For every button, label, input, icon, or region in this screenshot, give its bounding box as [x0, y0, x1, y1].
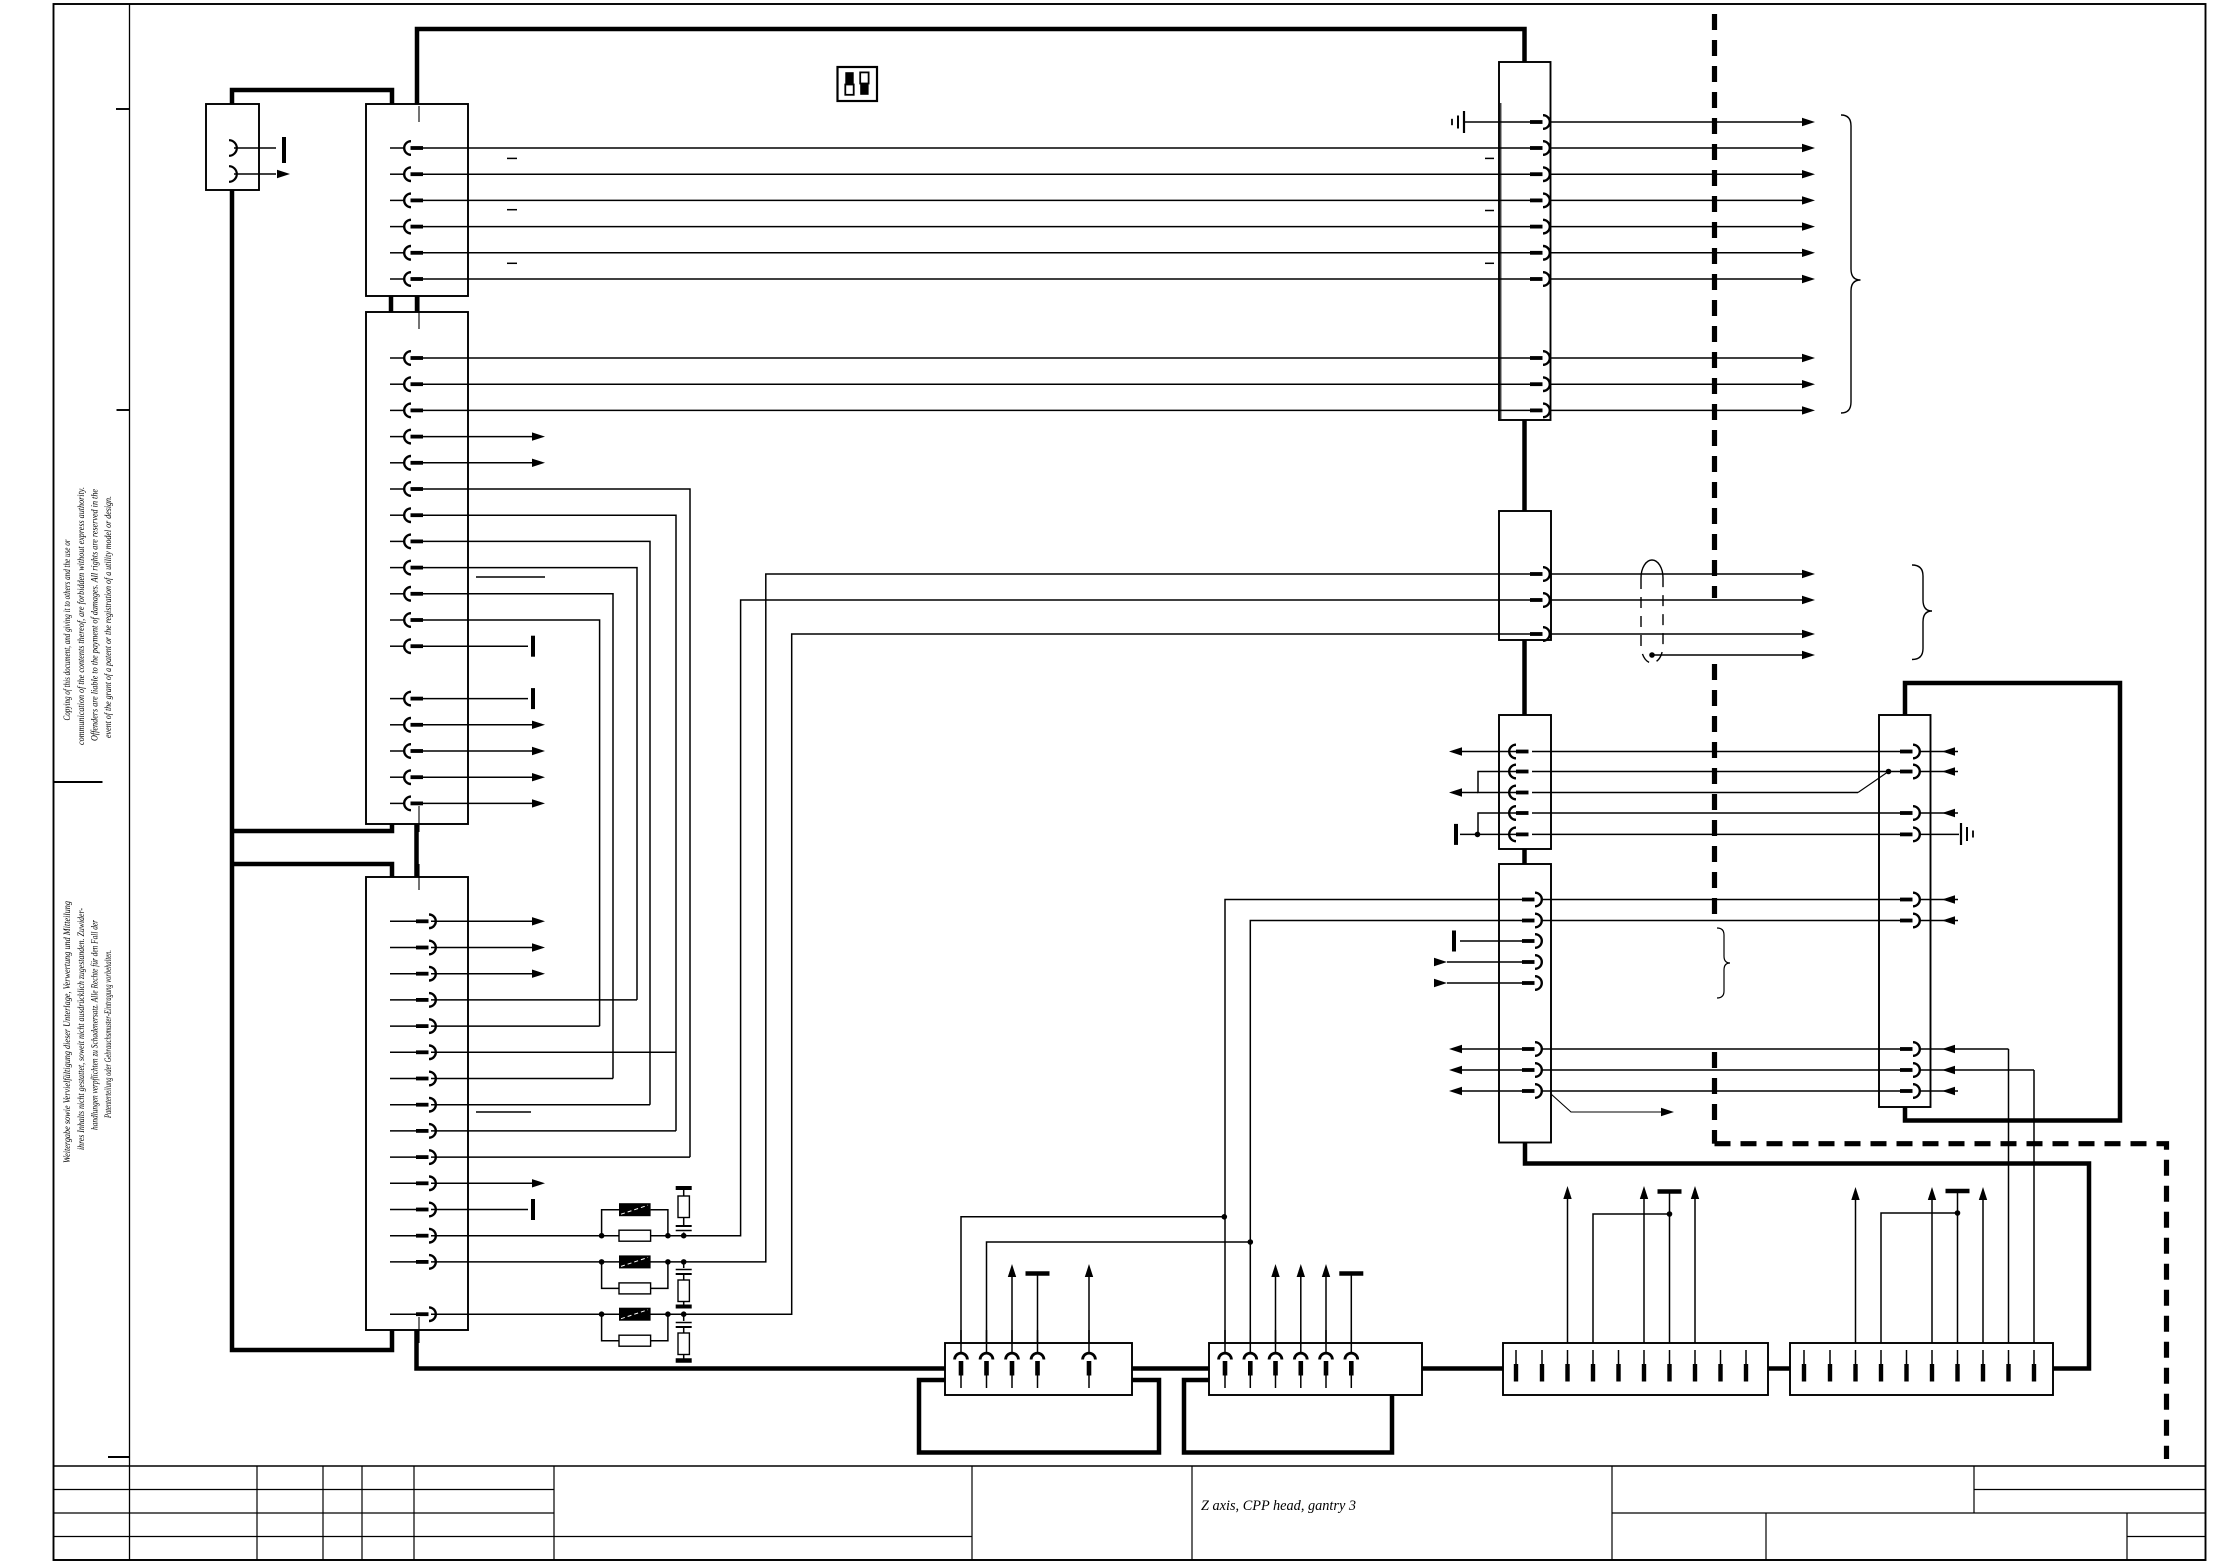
- connector X2: [366, 312, 468, 824]
- X8 pin row 1091: [1897, 1090, 1900, 1092]
- svg-text:event of the grant of a patent: event of the grant of a patent or the re…: [103, 496, 113, 738]
- device box M2 (thick): [1184, 1380, 1392, 1453]
- X5 pin 4: [1499, 199, 1530, 201]
- filter net 3 line: [602, 1313, 684, 1315]
- wire X5 out arrow: [1549, 173, 1802, 175]
- X3 pin 13: [390, 1235, 416, 1237]
- X5 pin 1: [1499, 121, 1530, 123]
- X2 pin 6: [390, 488, 404, 490]
- wire net2 to X6 pin1: [684, 574, 1499, 1262]
- XT2 pin at 1275.5: [1269, 1353, 1282, 1359]
- wire X9-X8 row: [1541, 1090, 1897, 1092]
- wire X2.12 with terminator: [423, 645, 528, 647]
- XT2 pin at 1300.8: [1294, 1353, 1307, 1359]
- ferrite bead L3: [619, 1308, 651, 1321]
- XT2 riser arrows: [1275, 1277, 1277, 1343]
- wire X8 row1 down to strip4: [2008, 1049, 2010, 1343]
- svg-text:handlungen verpflichten zu Sch: handlungen verpflichten zu Schadenersatz…: [90, 920, 100, 1130]
- ground symbol at X8: [1960, 823, 1962, 845]
- XT1 pin at 1012: [1006, 1353, 1019, 1359]
- wire X7.5-X8.4: [1532, 833, 1897, 835]
- wire X7.1-X8.1: [1532, 751, 1897, 753]
- connector X5: [1499, 62, 1551, 420]
- wire X7.5 left with terminator: [1460, 833, 1499, 835]
- wire X2 arrow out: [423, 750, 532, 752]
- X3 pin 11: [390, 1182, 416, 1184]
- wire X6 out arrow: [1549, 633, 1802, 635]
- XT4 pin tick at 1906.5: [1906, 1350, 1908, 1364]
- RC chain 3 (down from net3): capacitor C3, resistor R3a, ground bar: [683, 1314, 685, 1321]
- svg-text:ihres Inhalts nicht gestattet,: ihres Inhalts nicht gestattet, soweit ni…: [76, 908, 86, 1150]
- dashed cabinet boundary line: [1712, 14, 1717, 598]
- X7 pin 5: [1509, 828, 1516, 842]
- resistor R1 (on line): [619, 1230, 651, 1241]
- title block table: [54, 1465, 2206, 1467]
- X2 pin 9: [390, 567, 404, 569]
- arrow K1 pin2: [277, 170, 290, 178]
- wire X2 nest down: [423, 568, 637, 1000]
- connector X3: [366, 877, 468, 1330]
- shield drain wire with arrow: [1649, 652, 1655, 658]
- X8 pin row 899.5: [1897, 899, 1900, 901]
- wire X7.2 left jog to X7.3: [1478, 772, 1499, 793]
- X1 pin 4: [390, 226, 404, 228]
- wire X2 to X5: [423, 357, 1499, 359]
- X9 pin 2: [1499, 920, 1522, 922]
- XT4 pin tick at 1804: [1803, 1350, 1805, 1364]
- wire X2 nest down: [423, 541, 650, 1104]
- X2 pin 16: [390, 776, 404, 778]
- X8 pin 771: [1897, 771, 1900, 773]
- XT2 pin at 1225: [1219, 1353, 1232, 1359]
- XT4 riser arrows: [1855, 1200, 1857, 1343]
- wire X5 out arrow: [1549, 409, 1802, 411]
- curly brace group 2: [1912, 565, 1932, 660]
- wire X1.4 to X5: [423, 226, 1499, 228]
- X6 pin 2: [1499, 599, 1530, 601]
- X2 pin 7: [390, 514, 404, 516]
- XT3 pin tick at 1542: [1541, 1350, 1543, 1364]
- wire thick: X2-X3 stub: [414, 824, 419, 877]
- X2 pin-1 marker: [418, 313, 420, 329]
- wire X1.5 to X5: [423, 252, 1499, 254]
- wire X2 nest down: [423, 594, 613, 1079]
- wire thick: bottom bus segments between strips: [1132, 1366, 1209, 1371]
- X9 pin 3: [1499, 1048, 1522, 1050]
- X5 pin 9: [1499, 383, 1530, 385]
- wire X3 arrow out: [431, 973, 532, 975]
- wire X7.2-X8.2 with junction: [1532, 771, 1897, 773]
- X5 pin 7: [1499, 278, 1530, 280]
- wire strip1.2 to strip2 riser junction: [987, 1242, 1251, 1343]
- X9 pin row 983 input arrow: [1499, 982, 1522, 984]
- XT4 pin tick at 1983: [1982, 1350, 1984, 1364]
- svg-text:Offenders are liable to the pa: Offenders are liable to the payment of d…: [90, 489, 100, 741]
- svg-text:Weitergabe sowie Vervielfältig: Weitergabe sowie Vervielfältigung dieser…: [62, 901, 72, 1163]
- X8 pin 751: [1897, 751, 1900, 753]
- X8 right stub arrow: [1919, 899, 1958, 901]
- wire X5 out arrow: [1549, 121, 1802, 123]
- wire X3 to filter net 1: [431, 1235, 602, 1237]
- XT1 pin stubs above: [1011, 1277, 1013, 1343]
- wire strip2.2 to X9 row2: [1250, 921, 1499, 1344]
- wire X8 row2 down to strip4: [2033, 1070, 2035, 1343]
- ground symbol at X5 pin1: [1464, 121, 1499, 123]
- wire net3 to X6 pin3: [684, 634, 1499, 1314]
- wire X2 nest down: [423, 489, 690, 1157]
- XT1 pin at 986.5: [980, 1353, 993, 1359]
- wire X5 out arrow: [1549, 226, 1802, 228]
- X3 pin 15: [390, 1313, 416, 1315]
- X2 pin 10: [390, 593, 404, 595]
- X3 pin 2: [390, 947, 416, 949]
- XT1 pin at 1089: [1083, 1353, 1096, 1359]
- XT3 pin tick at 1644: [1643, 1350, 1645, 1364]
- XT3 pin tick at 1695: [1694, 1350, 1696, 1364]
- net label underline mid: [476, 576, 545, 578]
- terminator T-bar K1 pin1: [282, 137, 286, 163]
- XT3 shield T-bar: [1669, 1194, 1671, 1344]
- XT2 pin at 1250.3: [1244, 1353, 1257, 1359]
- X8.3 right stub arrow: [1919, 812, 1958, 814]
- junction dots net 3: [599, 1311, 605, 1317]
- wire X7.4-X8.3: [1532, 812, 1897, 814]
- wire thick: X3 bottom to bottom bus: [417, 1330, 946, 1369]
- shield bar above XT1.4: [1026, 1271, 1050, 1276]
- K1 pin 1: [234, 147, 276, 149]
- X5 pin 2: [1499, 147, 1530, 149]
- X3 pin 4: [390, 999, 416, 1001]
- wire X9-X8 row: [1541, 1069, 1897, 1071]
- XT3 riser arrows: [1567, 1199, 1569, 1343]
- wire X5 out arrow: [1549, 357, 1802, 359]
- X1 pin 6: [390, 278, 404, 280]
- X8.1 right stub arrow: [1919, 751, 1958, 753]
- X2 pin 15: [390, 750, 404, 752]
- X2 pin 13: [390, 698, 404, 700]
- wire thick: X8 frame loop: [1905, 683, 2120, 1121]
- XT3 pin tick at 1618.5: [1618, 1350, 1620, 1364]
- wire thick: X1-X2 stubs: [389, 296, 394, 312]
- X7 pin 1: [1509, 745, 1516, 759]
- DIP switch S1: [838, 67, 878, 101]
- wire X3.12 with terminator: [431, 1209, 528, 1211]
- XT1 pin at 1037.5: [1031, 1353, 1044, 1359]
- svg-text:Patenterteilung oder Gebrauchs: Patenterteilung oder Gebrauchsmuster-Ein…: [103, 950, 113, 1119]
- X5 inner guide line: [1500, 103, 1502, 419]
- X3 pin 12: [390, 1209, 416, 1211]
- X9 pin 4: [1499, 1069, 1522, 1071]
- wire X6 out arrow: [1549, 573, 1802, 575]
- X9 pin row 941 with terminator: [1499, 940, 1522, 942]
- wire net1 to X6 pin2: [684, 600, 1499, 1236]
- X9 pin row 962 input arrow: [1499, 961, 1522, 963]
- XT4 pin tick at 1855.5: [1855, 1350, 1857, 1364]
- wire X1.2 to X5: [423, 173, 1499, 175]
- wire X3 nest line: [431, 999, 637, 1001]
- X1 pin 3: [390, 199, 404, 201]
- filter net 1 line: [602, 1235, 684, 1237]
- X2 pin 14: [390, 724, 404, 726]
- wire X3 nest line: [431, 1156, 690, 1158]
- wire X3 to filter net 2: [431, 1261, 602, 1263]
- svg-text:Z axis, CPP head, gantry 3: Z axis, CPP head, gantry 3: [1201, 1498, 1356, 1514]
- wire X3.11 arrow out: [431, 1182, 532, 1184]
- curly brace group 4 (small, at boundary): [1717, 928, 1730, 998]
- XT3 loop wire: [1593, 1214, 1670, 1343]
- wire X1.6 to X5: [423, 278, 1499, 280]
- wire thick: X7-X9 stub: [1522, 849, 1527, 864]
- X8 lower stub arrows: [1919, 1048, 2009, 1050]
- wire thick: K1 top to X1 top: [232, 90, 392, 104]
- wire X5 out arrow: [1549, 147, 1802, 149]
- X8 pin row 1049: [1897, 1048, 1900, 1050]
- filter net 2 line: [602, 1261, 684, 1263]
- wire X3 to filter net 3: [431, 1313, 602, 1315]
- wire strip1.1 to strip2 riser junction: [961, 1217, 1224, 1343]
- XT4 shield T-bar: [1957, 1193, 1959, 1343]
- X2 pin 3: [390, 409, 404, 411]
- junction dots net 1: [599, 1233, 605, 1239]
- X6 pin 3: [1499, 633, 1530, 635]
- svg-text:communication of the contents: communication of the contents thereof, a…: [76, 487, 86, 745]
- ferrite bead L1 (parallel loop above): [602, 1210, 619, 1236]
- XT1 pin at 961: [955, 1353, 968, 1359]
- X7 pin 4: [1509, 806, 1516, 820]
- wire thick: left vertical trunk: [232, 190, 392, 1350]
- X3 pin 6: [390, 1051, 416, 1053]
- wire X3 nest line: [431, 1104, 650, 1106]
- X3 pin 8: [390, 1104, 416, 1106]
- X3 pin 5: [390, 1025, 416, 1027]
- resistor R2 (parallel loop below): [602, 1262, 619, 1289]
- wire X3 nest line: [431, 1051, 676, 1053]
- terminal strip XT1: [945, 1343, 1132, 1395]
- terminal strip XT4: [1790, 1343, 2053, 1395]
- frame inner column line: [129, 4, 131, 1560]
- wire X2 arrow out: [423, 436, 532, 438]
- X2 pin 4: [390, 436, 404, 438]
- XT4 loop wire: [1881, 1213, 1958, 1343]
- X2 pin 17: [390, 802, 404, 804]
- wire X1.1 to X5: [423, 147, 1499, 149]
- X9 left arrow: [1462, 1090, 1499, 1092]
- X1 pin-1 marker: [418, 106, 420, 122]
- X8 pin 834: [1897, 833, 1900, 835]
- connector X8: [1879, 715, 1931, 1107]
- wire X7.1 left arrow: [1462, 751, 1499, 753]
- X1 pin 5: [390, 252, 404, 254]
- wire X2 nest down: [423, 515, 676, 1131]
- X3 pin 3: [390, 973, 416, 975]
- terminal strip XT2: [1209, 1343, 1422, 1395]
- X9 pin 5: [1499, 1090, 1522, 1092]
- X5 pin 10: [1499, 409, 1530, 411]
- X3 pin 7: [390, 1078, 416, 1080]
- wire X2 arrow out: [423, 724, 532, 726]
- XT3 pin tick at 1516: [1515, 1350, 1517, 1364]
- X5 pin 8: [1499, 357, 1530, 359]
- XT2 pin at 1351.3: [1345, 1353, 1358, 1359]
- wire X7.3 to diagonal merge: [1532, 792, 1858, 794]
- X3 pin-1 marker: [418, 864, 420, 890]
- wire X5 out arrow: [1549, 278, 1802, 280]
- XT3 pin tick at 1720.5: [1720, 1350, 1722, 1364]
- wire label marks right: [1485, 157, 1494, 159]
- net label underline lower: [476, 1111, 531, 1113]
- X9 pin 1: [1499, 899, 1522, 901]
- wire X3 arrow out: [431, 947, 532, 949]
- X8 pin 813: [1897, 812, 1900, 814]
- wire X2 arrow out: [423, 802, 532, 804]
- X2 pin 12: [390, 645, 404, 647]
- wire X6 out arrow: [1549, 599, 1802, 601]
- X1 pin 2: [390, 173, 404, 175]
- wire X2 arrow out: [423, 776, 532, 778]
- X2 pin 11: [390, 619, 404, 621]
- wire thick: trunk branch to X3 top: [232, 864, 392, 877]
- X2 pin 2: [390, 383, 404, 385]
- X7 pin 2: [1509, 765, 1516, 779]
- X3 pin 1: [390, 920, 416, 922]
- XT3 pin tick at 1746: [1745, 1350, 1747, 1364]
- wire X7.3 left arrow: [1462, 792, 1478, 794]
- X2 pin 8: [390, 540, 404, 542]
- ferrite bead L2: [619, 1255, 651, 1268]
- K1 pin 2: [234, 173, 276, 175]
- X8 pin row 1070: [1897, 1069, 1900, 1071]
- connector X7: [1499, 715, 1551, 849]
- wire X2 nest down: [423, 620, 600, 1026]
- frame tick marks: [116, 108, 130, 110]
- X2 pin 5: [390, 462, 404, 464]
- X8 right stub arrow: [1919, 920, 1958, 922]
- wire X1.3 to X5: [423, 199, 1499, 201]
- connector X6: [1499, 511, 1551, 640]
- wire X5 out arrow: [1549, 199, 1802, 201]
- X6 pin 1: [1499, 573, 1530, 575]
- X2 pin 1: [390, 357, 404, 359]
- wire label marks left: [507, 157, 517, 159]
- diagonal merge wire: [1858, 772, 1889, 793]
- X8 pin row 920.5: [1897, 920, 1900, 922]
- wire X2 to X5: [423, 383, 1499, 385]
- XT3 pin tick at 1669.5: [1669, 1350, 1671, 1364]
- X8.2 right stub arrow: [1919, 771, 1958, 773]
- XT3 pin tick at 1593: [1592, 1350, 1594, 1364]
- X5 pin 6: [1499, 252, 1530, 254]
- X5 pin 5: [1499, 226, 1530, 228]
- wire X2.13 with terminator: [423, 698, 528, 700]
- XT3 pin tick at 1567.5: [1567, 1350, 1569, 1364]
- XT4 pin tick at 1932: [1931, 1350, 1933, 1364]
- XT4 pin tick at 1881: [1880, 1350, 1882, 1364]
- shield bar above XT2.6: [1350, 1275, 1352, 1343]
- wire X7.4 left jog to X7.5: [1478, 813, 1499, 834]
- resistor R3 (parallel loop below): [602, 1314, 619, 1341]
- device box M1 (thick): [919, 1380, 1159, 1453]
- terminal strip XT3: [1503, 1343, 1768, 1395]
- junction dots net 2: [599, 1259, 605, 1265]
- svg-text:Copying of this document, and: Copying of this document, and giving it …: [62, 539, 72, 720]
- wire X2 to X5: [423, 409, 1499, 411]
- X9 diagonal breakout arrow: [1551, 1094, 1661, 1112]
- X5 pin 3: [1499, 173, 1530, 175]
- wire X2 arrow out: [423, 462, 532, 464]
- X3 pin 14: [390, 1261, 416, 1263]
- wire thick: bottom bus right end up to mid bus: [1525, 1143, 2089, 1369]
- wire X9-X8 row: [1541, 920, 1897, 922]
- wire X3 nest line: [431, 1025, 600, 1027]
- curly brace group 1: [1841, 115, 1861, 413]
- wire thick: X5-X6 stub: [1522, 420, 1527, 511]
- connector X1: [366, 104, 468, 296]
- connector K1 (top-left): [206, 104, 259, 190]
- wire thick: trunk branch to X2 bottom: [232, 824, 392, 831]
- cable shield symbol: [1641, 560, 1663, 578]
- wire X9-X8 row: [1541, 899, 1897, 901]
- X3 pin 10: [390, 1156, 416, 1158]
- wire X3 arrow out: [431, 920, 532, 922]
- XT4 pin tick at 2008.5: [2008, 1350, 2010, 1364]
- RC chain 2 (down from net2): capacitor C2, resistor R2a, shield bar: [683, 1262, 685, 1268]
- wire X5 out arrow: [1549, 252, 1802, 254]
- wire X5 out arrow: [1549, 383, 1802, 385]
- wire strip2.1 to X9 row1: [1225, 900, 1499, 1344]
- XT4 pin tick at 1957.5: [1957, 1350, 1959, 1364]
- XT2 pin at 1326: [1320, 1353, 1333, 1359]
- X9 left arrow: [1462, 1069, 1499, 1071]
- wire thick bus: top loop X1 to X5: [417, 29, 1525, 104]
- X3 pin 9: [390, 1130, 416, 1132]
- X7 pin 3: [1509, 786, 1516, 800]
- wire X9-X8 row: [1541, 1048, 1897, 1050]
- wire X3 nest line: [431, 1078, 613, 1080]
- X9 left arrow: [1462, 1048, 1499, 1050]
- wire thick: X6-X7 stub: [1522, 640, 1527, 715]
- X1 pin 1: [390, 147, 404, 149]
- X8.4 stub to ground: [1919, 833, 1959, 835]
- XT4 pin tick at 2034: [2033, 1350, 2035, 1364]
- XT4 pin tick at 1830: [1829, 1350, 1831, 1364]
- connector X9: [1499, 864, 1551, 1143]
- wire X3 nest line: [431, 1130, 676, 1132]
- RC chain 1 (up from net1): capacitor C1, resistor R1a, shield bar: [683, 1233, 685, 1236]
